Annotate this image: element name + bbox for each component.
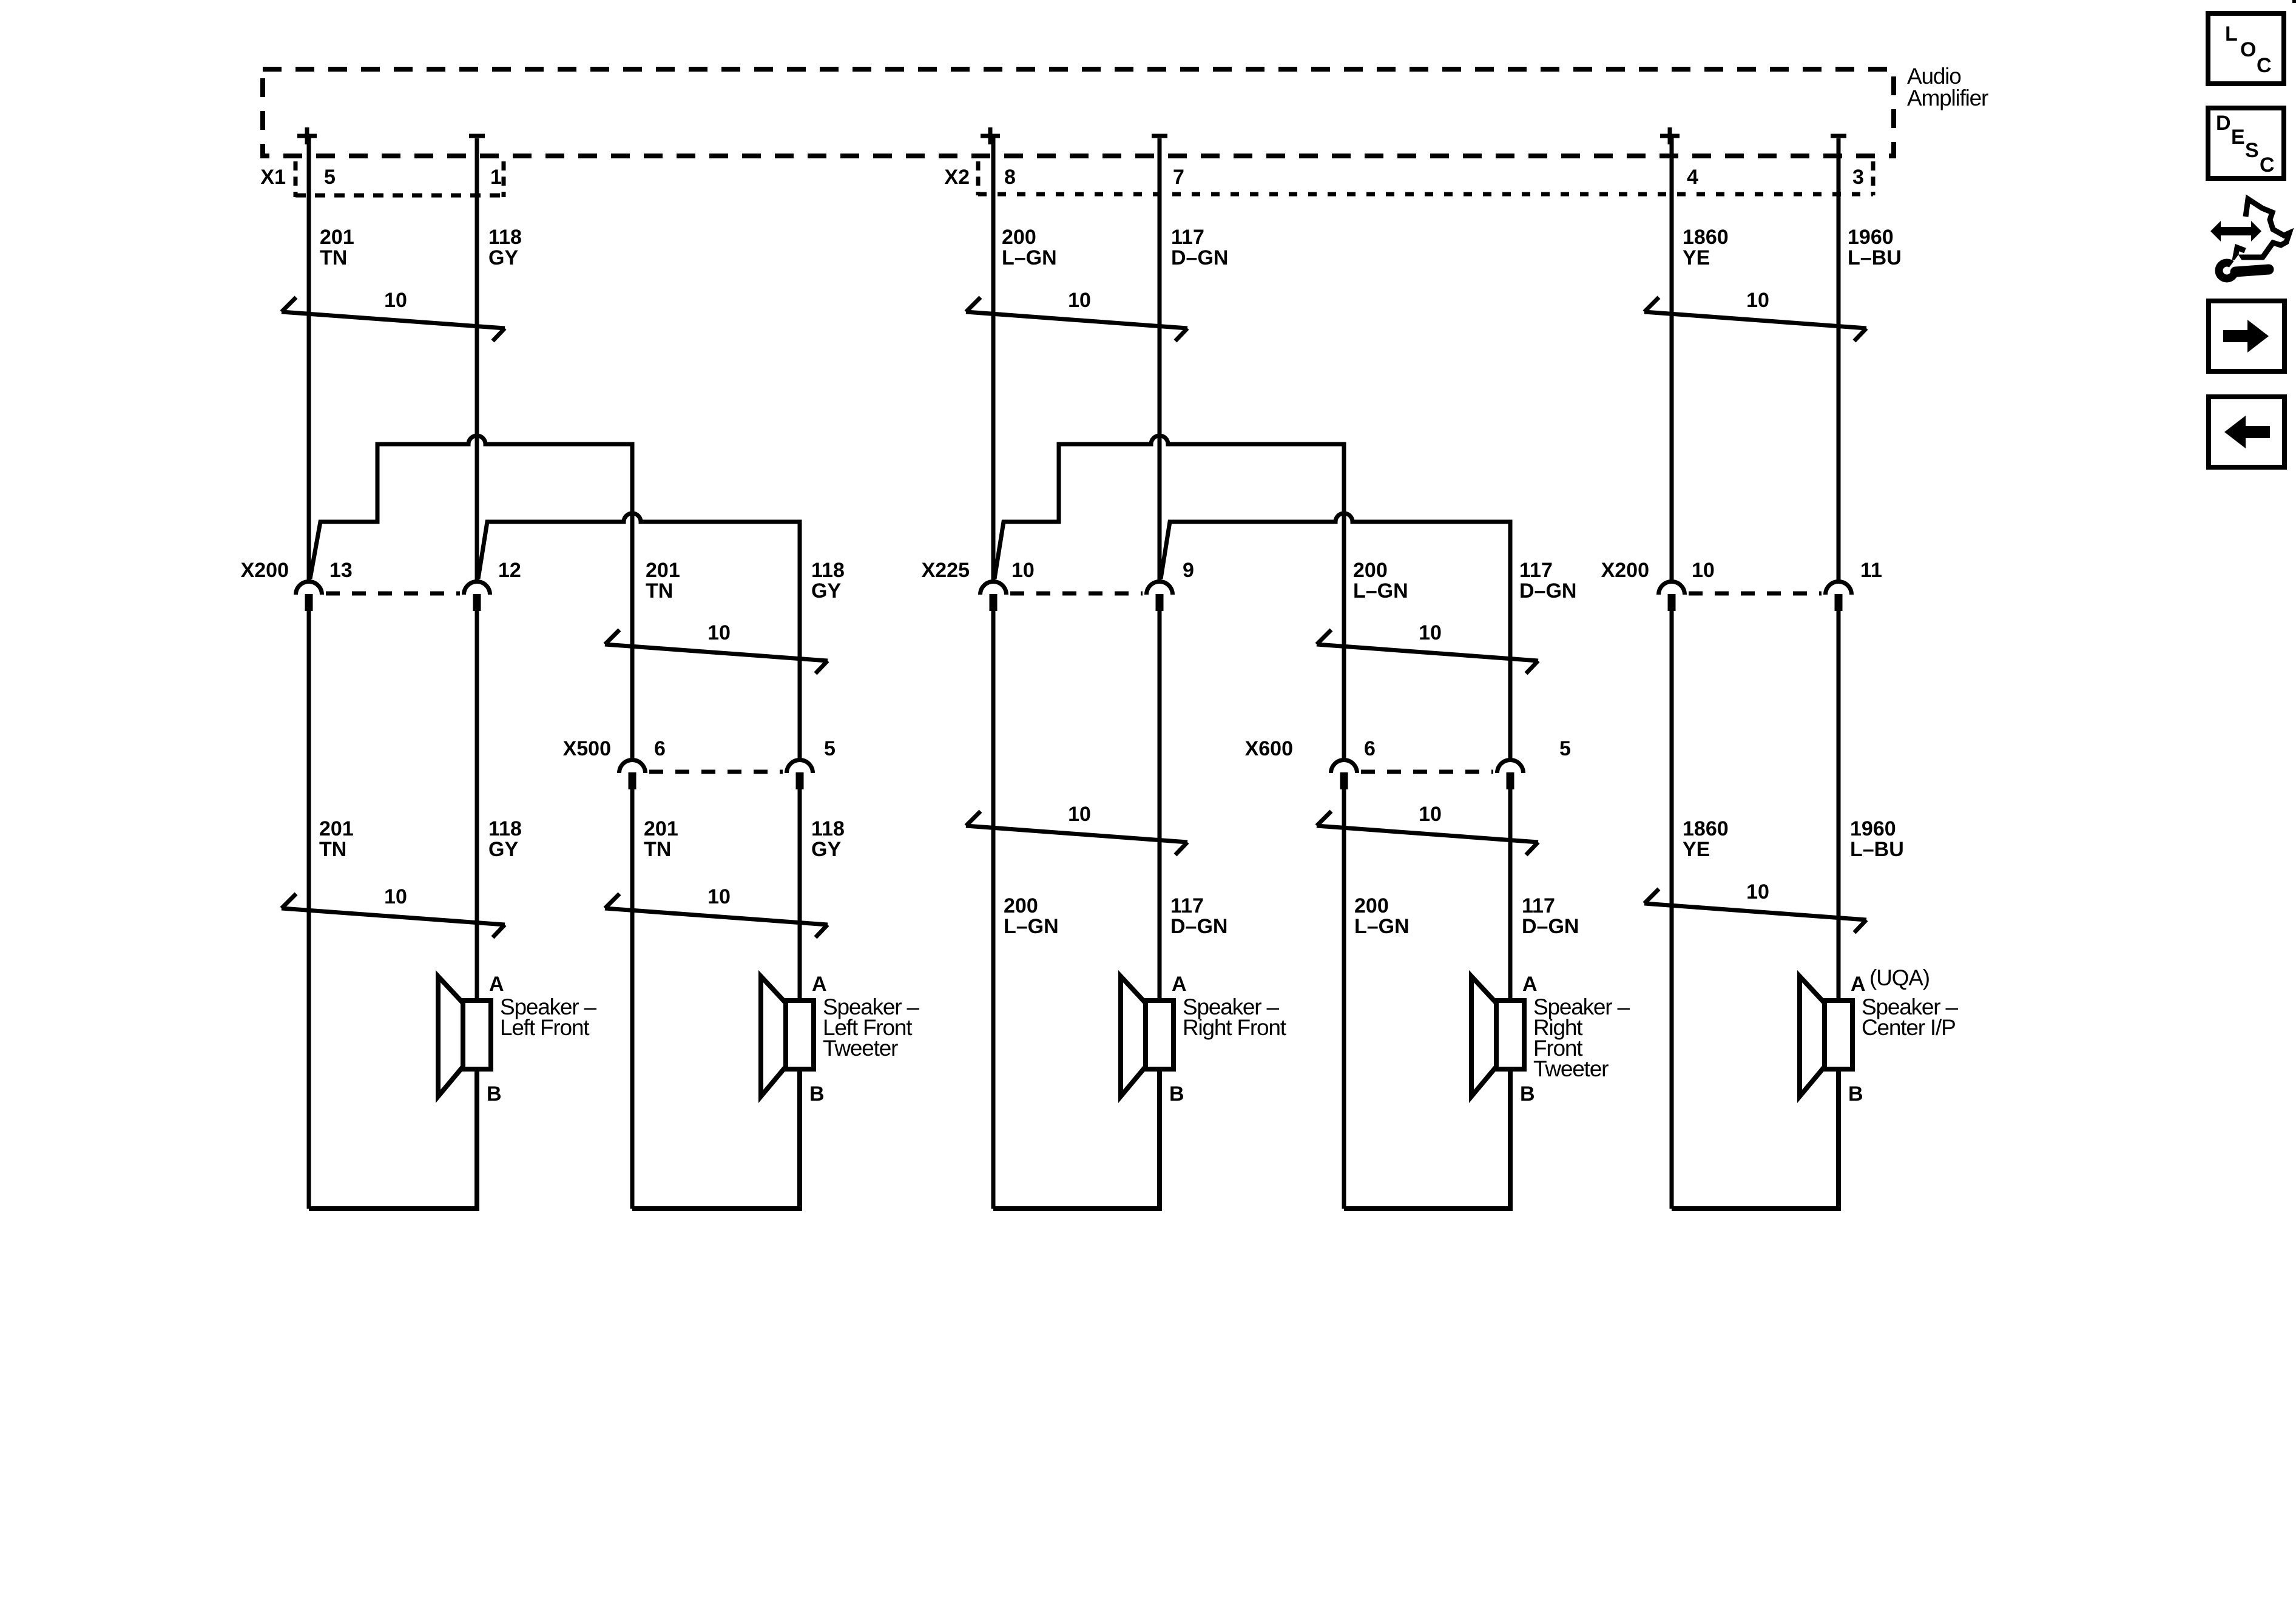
amplifier - terminal (pin 3) [1831, 134, 1846, 138]
label 200 L-GN (lower right) [1354, 894, 1410, 938]
pin 9 label [1183, 559, 1194, 582]
connector X600 dashed link [1361, 770, 1493, 774]
pin 1 label [490, 166, 502, 189]
wire branch 201 TN to X500 pin 6 (with hop over 118 GY) [310, 436, 632, 759]
svg-text:200: 200 [1354, 894, 1389, 917]
svg-text:200: 200 [1353, 559, 1388, 582]
svg-text:5: 5 [1559, 737, 1571, 760]
svg-text:1: 1 [490, 166, 502, 189]
svg-text:1860: 1860 [1683, 817, 1729, 840]
label 1860 YE (lower) [1683, 817, 1729, 861]
svg-text:A: A [1522, 973, 1538, 996]
connector X500 pin 6 [620, 760, 646, 790]
wire branch 118 GY to X500 pin 5 (with hop over 201 TN branch) [478, 513, 800, 759]
svg-text:10: 10 [1746, 289, 1769, 312]
wire 118 GY from amp pin 1 to X200 pin 12 [475, 138, 479, 581]
pin 5 label [324, 166, 336, 189]
wire 201 TN from X500-6 to bottom [630, 789, 635, 1209]
connector X500 pin 5 [787, 760, 813, 790]
svg-text:D: D [2216, 112, 2231, 135]
amplifier + terminal (pin 5) [297, 127, 317, 144]
svg-text:117: 117 [1170, 894, 1204, 917]
connector X200 label [241, 559, 289, 582]
label 200 L-GN (mid) [1353, 559, 1408, 603]
label 118 GY (lower left) [488, 817, 522, 861]
pin 3 label [1852, 166, 1864, 189]
svg-text:13: 13 [329, 559, 353, 582]
svg-text:200: 200 [1002, 226, 1036, 249]
amplifier - terminal (pin 7) [1152, 134, 1167, 138]
svg-text:201: 201 [646, 559, 680, 582]
svg-text:L–BU: L–BU [1850, 838, 1904, 861]
svg-text:118: 118 [811, 559, 845, 582]
speaker right front terminal B label [1169, 1082, 1184, 1106]
twisted leads symbol 10 (X500 branch) [605, 621, 828, 673]
svg-text:Audio: Audio [1907, 64, 1961, 89]
wire branch 200 L-GN to X600 pin 6 (with hop over 117 D-GN) [994, 436, 1344, 759]
svg-text:C: C [2260, 154, 2275, 177]
label 117 D-GN (top) [1171, 226, 1228, 269]
pin 10 label [1692, 559, 1715, 582]
svg-text:201: 201 [320, 226, 354, 249]
svg-text:118: 118 [488, 226, 522, 249]
twisted leads symbol 10 (201/118 top) [282, 289, 505, 341]
connector X500 label [563, 737, 611, 760]
svg-text:10: 10 [1011, 559, 1035, 582]
label 118 GY (top) [488, 226, 522, 269]
svg-text:B: B [1848, 1082, 1863, 1106]
speaker right front name [1183, 994, 1287, 1040]
speaker right front tweeter terminal A label [1522, 973, 1538, 996]
connector X225 dashed link [1010, 592, 1143, 596]
twisted leads symbol 10 (1860/1960 top) [1644, 289, 1866, 341]
pin 11 label [1860, 559, 1882, 582]
connector X200 right pin 10 [1659, 582, 1685, 612]
speaker left front terminal B label [487, 1082, 502, 1106]
label 201 TN (top) [320, 226, 354, 269]
speaker left front name [500, 994, 596, 1040]
connector X200 right pin 11 [1826, 582, 1852, 612]
wire 1960 L-BU from amp pin 3 to X200 pin 11 [1837, 138, 1841, 581]
connector X1 pin box (dashed) [295, 161, 504, 197]
svg-text:X1: X1 [260, 166, 286, 189]
return wire left front tweeter [632, 1069, 800, 1209]
svg-text:X600: X600 [1245, 737, 1293, 760]
speaker - left front tweeter [761, 976, 814, 1096]
wire 200 L-GN from amp pin 8 to X225 pin 10 [991, 136, 996, 581]
speaker center terminal A label [1851, 965, 1930, 996]
wire 118 GY from X500-5 to left front tweeter A [798, 789, 802, 1001]
svg-text:X200: X200 [1601, 559, 1649, 582]
svg-text:TN: TN [646, 579, 673, 603]
svg-text:201: 201 [319, 817, 354, 840]
svg-text:X200: X200 [241, 559, 289, 582]
label 201 TN (lower tweeter) [644, 817, 678, 861]
svg-text:9: 9 [1183, 559, 1194, 582]
svg-text:Center I/P: Center I/P [1862, 1015, 1956, 1040]
svg-text:L–GN: L–GN [1354, 915, 1410, 938]
label 1860 YE (top) [1683, 226, 1729, 269]
svg-text:GY: GY [811, 579, 841, 603]
svg-text:10: 10 [1419, 803, 1442, 826]
svg-text:E: E [2231, 126, 2245, 149]
wire 200 L-GN from X225-10 to bottom [991, 610, 996, 1209]
svg-text:10: 10 [707, 885, 731, 908]
svg-text:Tweeter: Tweeter [1533, 1056, 1609, 1081]
svg-text:YE: YE [1683, 838, 1710, 861]
svg-text:YE: YE [1683, 246, 1710, 269]
wire 1960 L-BU from X200-11 to center speaker A [1837, 610, 1841, 1001]
svg-text:10: 10 [384, 885, 407, 908]
svg-text:L–GN: L–GN [1353, 579, 1408, 603]
label 117 D-GN (lower right) [1522, 894, 1579, 938]
connector X200 right dashed link [1689, 592, 1822, 596]
speaker left front tweeter terminal A label [812, 973, 827, 996]
speaker - right front [1121, 976, 1173, 1096]
connector X200 dashed link [326, 592, 460, 596]
svg-text:10: 10 [1692, 559, 1715, 582]
return wire left front speaker [309, 1069, 477, 1209]
connector X600 pin 5 [1497, 760, 1524, 790]
audio amplifier module box (dashed) [263, 69, 1894, 156]
label 117 D-GN (mid) [1519, 559, 1576, 603]
svg-text:TN: TN [319, 838, 346, 861]
speaker right front tweeter name [1533, 994, 1630, 1081]
return wire center speaker [1672, 1069, 1838, 1209]
svg-text:10: 10 [1068, 289, 1091, 312]
label 201 TN (lower left) [319, 817, 354, 861]
twisted leads symbol 10 (X600 branch) [1317, 621, 1538, 673]
svg-text:X225: X225 [922, 559, 970, 582]
svg-text:Amplifier: Amplifier [1907, 86, 1988, 110]
wire 1860 YE from amp pin 4 to X200 pin 10 [1670, 136, 1674, 581]
svg-text:TN: TN [644, 838, 671, 861]
svg-text:B: B [1169, 1082, 1184, 1106]
svg-text:10: 10 [1419, 621, 1442, 644]
pin 6 label [1364, 737, 1376, 760]
amplifier + terminal (pin 4) [1660, 127, 1680, 144]
svg-text:A: A [812, 973, 827, 996]
label 118 GY (mid) [811, 559, 845, 603]
speaker - left front [438, 976, 491, 1096]
svg-text:TN: TN [320, 246, 347, 269]
svg-text:10: 10 [1746, 880, 1769, 903]
audio amplifier label [1907, 64, 1988, 110]
svg-text:10: 10 [1068, 803, 1091, 826]
svg-text:L–GN: L–GN [1004, 915, 1059, 938]
service icon double arrow [2210, 221, 2261, 241]
svg-text:A: A [1172, 973, 1187, 996]
connector X225 pin 10 [981, 582, 1007, 612]
LOC navigation box [2208, 13, 2284, 84]
twisted leads symbol 10 (right front) [966, 803, 1187, 855]
pin 6 label [654, 737, 666, 760]
svg-text:6: 6 [1364, 737, 1376, 760]
svg-text:Tweeter: Tweeter [823, 1036, 898, 1061]
speaker - center I/P [1800, 976, 1852, 1096]
pin 12 label [498, 559, 521, 582]
svg-text:8: 8 [1004, 166, 1016, 189]
service icon wrench [2219, 255, 2269, 279]
svg-text:7: 7 [1173, 166, 1184, 189]
speaker right front tweeter terminal B label [1520, 1082, 1535, 1106]
wire branch 117 D-GN to X600 pin 5 (with hop over 200 L-GN branch) [1161, 513, 1510, 759]
svg-text:GY: GY [488, 838, 518, 861]
twisted leads symbol 10 (200/117 top) [966, 289, 1187, 341]
speaker left front tweeter terminal B label [809, 1082, 825, 1106]
twisted leads symbol 10 (left tweeter) [605, 885, 828, 937]
svg-text:Left Front: Left Front [500, 1015, 590, 1040]
connector X225 pin 9 [1147, 582, 1173, 612]
svg-text:Right Front: Right Front [1183, 1015, 1287, 1040]
svg-text:C: C [2257, 54, 2272, 77]
speaker center name [1862, 994, 1958, 1040]
svg-text:A: A [1851, 973, 1866, 996]
svg-text:4: 4 [1687, 166, 1698, 189]
pin 10 label [1011, 559, 1035, 582]
svg-text:L: L [2225, 22, 2238, 46]
wire 200 L-GN from X600-6 to bottom [1342, 789, 1346, 1209]
pin 5 label [824, 737, 836, 760]
svg-text:6: 6 [654, 737, 666, 760]
speaker left front terminal A label [489, 973, 504, 996]
svg-text:12: 12 [498, 559, 521, 582]
svg-text:A: A [489, 973, 504, 996]
service icon panel outline [2235, 199, 2289, 257]
svg-text:5: 5 [324, 166, 336, 189]
return wire right front speaker [993, 1069, 1160, 1209]
svg-text:1860: 1860 [1683, 226, 1729, 249]
connector X200 pin 12 [464, 582, 490, 612]
svg-text:5: 5 [824, 737, 836, 760]
svg-text:201: 201 [644, 817, 678, 840]
svg-text:200: 200 [1004, 894, 1038, 917]
return wire right front tweeter [1344, 1069, 1510, 1209]
label 118 GY (lower tweeter) [811, 817, 845, 861]
label 1960 L-BU (top) [1848, 226, 1902, 269]
DESC navigation box [2208, 108, 2284, 178]
label 200 L-GN (top) [1002, 226, 1057, 269]
svg-text:118: 118 [488, 817, 522, 840]
connector X200 pin 13 [296, 582, 322, 612]
wire 117 D-GN from X600-5 to right front tweeter A [1508, 789, 1513, 1001]
pin 4 label [1687, 166, 1698, 189]
pin 8 label [1004, 166, 1016, 189]
connector X500 dashed link [649, 770, 783, 774]
wire 1860 YE from X200-10 to bottom [1670, 610, 1674, 1209]
previous page arrow box [2209, 397, 2284, 467]
label 201 TN (mid) [646, 559, 680, 603]
svg-text:B: B [1520, 1082, 1535, 1106]
speaker right front terminal A label [1172, 973, 1187, 996]
svg-text:D–GN: D–GN [1519, 579, 1576, 603]
svg-text:GY: GY [488, 246, 518, 269]
svg-text:D–GN: D–GN [1171, 246, 1228, 269]
next page arrow box [2209, 301, 2284, 371]
svg-text:L–BU: L–BU [1848, 246, 1902, 269]
svg-text:GY: GY [811, 838, 841, 861]
speaker center terminal B label [1848, 1082, 1863, 1106]
svg-text:11: 11 [1860, 559, 1882, 582]
svg-text:118: 118 [811, 817, 845, 840]
svg-text:1960: 1960 [1850, 817, 1896, 840]
amplifier + terminal (pin 8) [981, 127, 1000, 144]
page corner mark [2292, 0, 2296, 3]
connector X600 pin 6 [1331, 760, 1357, 790]
connector X2 label [944, 166, 970, 189]
svg-text:1960: 1960 [1848, 226, 1894, 249]
pin 5 label [1559, 737, 1571, 760]
svg-text:X500: X500 [563, 737, 611, 760]
svg-text:B: B [809, 1082, 825, 1106]
connector X1 label [260, 166, 286, 189]
label 1960 L-BU (lower) [1850, 817, 1904, 861]
svg-text:O: O [2240, 38, 2256, 61]
svg-text:117: 117 [1522, 894, 1555, 917]
label 117 D-GN (lower) [1170, 894, 1227, 938]
speaker - right front tweeter [1471, 976, 1524, 1096]
connector X225 label [922, 559, 970, 582]
svg-text:10: 10 [707, 621, 731, 644]
svg-text:10: 10 [384, 289, 407, 312]
svg-text:L–GN: L–GN [1002, 246, 1057, 269]
svg-text:117: 117 [1519, 559, 1553, 582]
connector X200 right label [1601, 559, 1649, 582]
wire 117 D-GN from X225-9 to right front speaker A [1158, 610, 1162, 1001]
svg-text:S: S [2245, 139, 2259, 162]
twisted leads symbol 10 (left front) [282, 885, 505, 937]
wire 201 TN from amp pin 5 to X200 pin 13 [307, 136, 311, 581]
svg-text:B: B [487, 1082, 502, 1106]
twisted leads symbol 10 (center) [1644, 880, 1866, 933]
twisted leads symbol 10 (right tweeter) [1317, 803, 1538, 855]
speaker left front tweeter name [823, 994, 919, 1061]
pin 7 label [1173, 166, 1184, 189]
svg-text:X2: X2 [944, 166, 970, 189]
wire 117 D-GN from amp pin 7 to X225 pin 9 [1158, 138, 1162, 581]
svg-text:D–GN: D–GN [1170, 915, 1227, 938]
svg-text:3: 3 [1852, 166, 1864, 189]
connector X2 pin box (dashed) [978, 161, 1873, 195]
connector X600 label [1245, 737, 1293, 760]
pin 13 label [329, 559, 353, 582]
label 200 L-GN (lower) [1004, 894, 1059, 938]
svg-text:117: 117 [1171, 226, 1204, 249]
svg-text:(UQA): (UQA) [1869, 965, 1930, 990]
amplifier - terminal (pin 1) [469, 134, 485, 138]
wire 201 TN from X200-13 to bottom [307, 610, 311, 1209]
svg-text:D–GN: D–GN [1522, 915, 1579, 938]
wire 118 GY from X200-12 to left front speaker A [475, 610, 479, 1001]
